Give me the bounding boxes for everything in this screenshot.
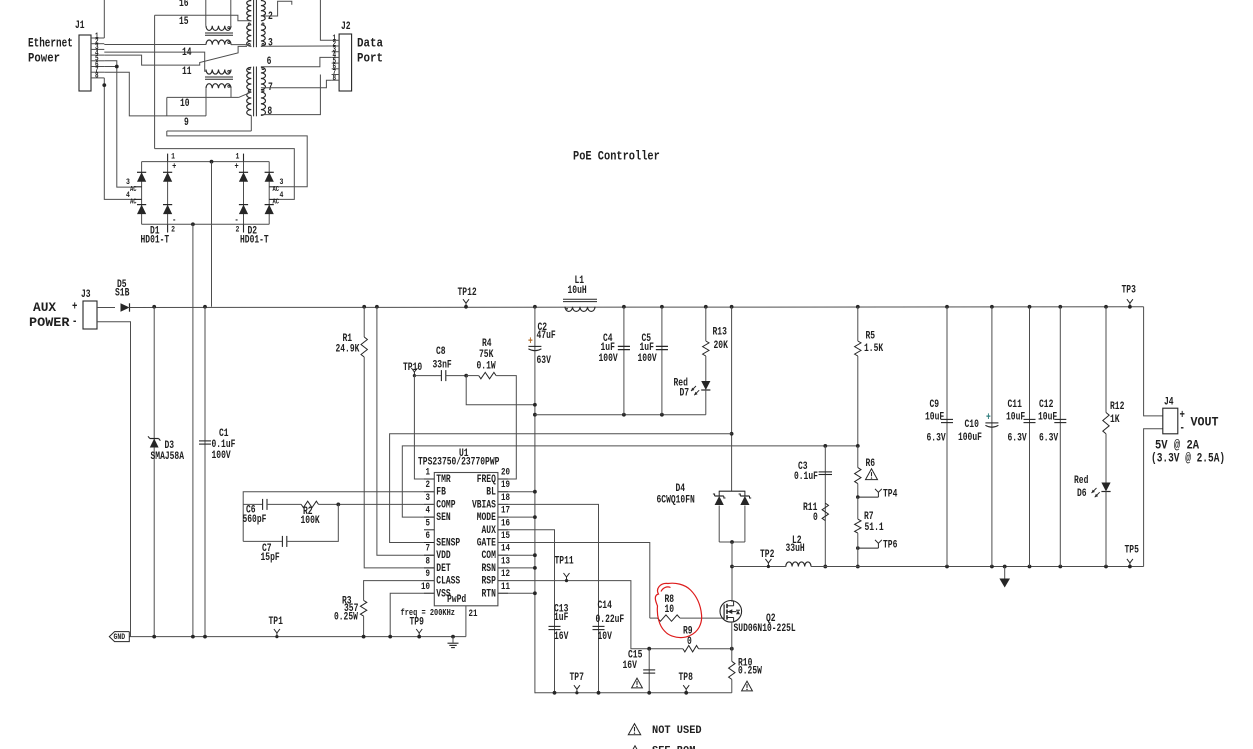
svg-text:TP8: TP8 — [679, 672, 693, 684]
svg-text:R13: R13 — [713, 327, 727, 339]
svg-text:16V: 16V — [554, 631, 569, 643]
svg-text:TP7: TP7 — [570, 672, 584, 684]
svg-text:6.3V: 6.3V — [1039, 433, 1059, 445]
svg-text:10uF: 10uF — [1006, 412, 1025, 424]
svg-text:3: 3 — [280, 177, 284, 187]
svg-text:8: 8 — [333, 74, 337, 83]
svg-text:16: 16 — [179, 0, 189, 10]
svg-text:13: 13 — [501, 556, 510, 567]
svg-text:TP1: TP1 — [269, 616, 283, 628]
svg-text:TP6: TP6 — [883, 540, 897, 552]
svg-text:(3.3V @ 2.5A): (3.3V @ 2.5A) — [1151, 450, 1225, 465]
svg-text:+: + — [235, 161, 240, 172]
svg-text:7: 7 — [426, 544, 431, 555]
svg-text:RTN: RTN — [482, 588, 496, 600]
svg-text:14: 14 — [501, 544, 510, 555]
svg-text:18: 18 — [501, 493, 510, 504]
svg-text:100V: 100V — [638, 353, 658, 365]
svg-text:15: 15 — [501, 531, 510, 542]
svg-text:AC: AC — [130, 186, 137, 194]
svg-text:POWER: POWER — [29, 315, 70, 330]
svg-text:21: 21 — [469, 609, 478, 620]
svg-text:R5: R5 — [866, 331, 876, 343]
svg-text:BL: BL — [486, 487, 496, 499]
svg-text:Red: Red — [1074, 475, 1088, 487]
svg-text:GND: GND — [114, 632, 126, 642]
svg-text:SUD06N10-225L: SUD06N10-225L — [734, 623, 796, 635]
svg-text:COM: COM — [482, 550, 496, 562]
svg-text:TP11: TP11 — [555, 556, 574, 568]
svg-text:HD01-T: HD01-T — [240, 235, 269, 247]
svg-text:TMR: TMR — [436, 474, 451, 486]
svg-text:6: 6 — [426, 531, 431, 542]
svg-text:TP12: TP12 — [458, 287, 477, 299]
svg-text:S1B: S1B — [115, 288, 130, 300]
svg-text:10uF: 10uF — [1038, 412, 1057, 424]
svg-text:20K: 20K — [714, 340, 729, 352]
svg-text:C12: C12 — [1039, 399, 1053, 411]
svg-text:C11: C11 — [1008, 399, 1022, 411]
svg-text:VDD: VDD — [436, 550, 450, 562]
svg-text:AC: AC — [130, 199, 137, 207]
svg-text:Port: Port — [357, 52, 383, 66]
svg-text:6: 6 — [267, 56, 272, 68]
svg-text:-: - — [72, 314, 77, 328]
svg-text:6.3V: 6.3V — [927, 433, 947, 445]
svg-text:RSP: RSP — [482, 576, 496, 588]
svg-text:RSN: RSN — [482, 563, 496, 575]
svg-text:-: - — [1180, 421, 1185, 435]
svg-text:Data: Data — [357, 37, 383, 51]
svg-text:J3: J3 — [81, 289, 91, 301]
svg-text:6CWQ10FN: 6CWQ10FN — [657, 495, 695, 507]
svg-text:10V: 10V — [598, 631, 613, 643]
svg-text:75K: 75K — [479, 349, 494, 361]
svg-text:16V: 16V — [623, 660, 638, 672]
svg-text:1.5K: 1.5K — [864, 343, 884, 355]
svg-text:TP5: TP5 — [1125, 545, 1139, 557]
svg-text:10: 10 — [180, 98, 190, 110]
svg-text:Ethernet: Ethernet — [28, 37, 73, 51]
svg-text:C10: C10 — [965, 419, 979, 431]
svg-text:14: 14 — [182, 47, 192, 59]
svg-text:3: 3 — [268, 38, 273, 50]
svg-text:560pF: 560pF — [243, 514, 267, 526]
svg-text:C9: C9 — [930, 399, 940, 411]
svg-text:COMP: COMP — [436, 499, 455, 511]
svg-text:C14: C14 — [598, 600, 613, 612]
svg-text:11: 11 — [501, 582, 510, 593]
svg-text:4: 4 — [280, 190, 284, 200]
svg-text:33uH: 33uH — [786, 543, 805, 555]
svg-text:2: 2 — [268, 11, 273, 23]
svg-text:SEN: SEN — [436, 512, 450, 524]
svg-text:9: 9 — [426, 569, 431, 580]
svg-text:TP9: TP9 — [410, 617, 424, 629]
svg-text:PwPd: PwPd — [447, 594, 466, 606]
svg-text:10uF: 10uF — [925, 412, 944, 424]
svg-text:DET: DET — [436, 563, 451, 575]
svg-text:1uF: 1uF — [554, 612, 568, 624]
svg-text:D4: D4 — [676, 483, 686, 495]
svg-text:16: 16 — [501, 518, 510, 529]
svg-text:4: 4 — [426, 506, 431, 517]
svg-text:TP3: TP3 — [1122, 285, 1136, 297]
svg-text:TP2: TP2 — [760, 549, 774, 561]
svg-text:2: 2 — [236, 224, 240, 234]
svg-text:11: 11 — [182, 66, 192, 78]
svg-text:J4: J4 — [1164, 397, 1174, 409]
svg-text:100V: 100V — [599, 353, 619, 365]
svg-text:D6: D6 — [1077, 488, 1087, 500]
svg-text:C8: C8 — [436, 346, 446, 358]
svg-text:12: 12 — [501, 569, 510, 580]
svg-text:24.9K: 24.9K — [336, 344, 360, 356]
svg-text:AUX: AUX — [482, 525, 497, 537]
svg-text:AUX: AUX — [33, 300, 56, 315]
svg-text:+: + — [986, 412, 991, 424]
svg-text:33nF: 33nF — [433, 360, 452, 372]
svg-text:CLASS: CLASS — [436, 576, 460, 588]
svg-text:20: 20 — [501, 468, 510, 479]
svg-text:0.1W: 0.1W — [477, 361, 497, 373]
svg-text:8: 8 — [95, 72, 99, 81]
svg-text:10: 10 — [665, 604, 675, 616]
svg-text:PoE Controller: PoE Controller — [573, 148, 660, 163]
svg-text:15pF: 15pF — [261, 552, 280, 564]
svg-text:AC: AC — [273, 186, 280, 194]
svg-text:8: 8 — [267, 106, 272, 118]
svg-text:0: 0 — [687, 636, 692, 648]
svg-text:SENSP: SENSP — [436, 538, 460, 550]
svg-text:0.1uF: 0.1uF — [794, 471, 818, 483]
svg-text:TP10: TP10 — [403, 362, 422, 374]
svg-text:1K: 1K — [1110, 414, 1120, 426]
svg-text:R12: R12 — [1110, 401, 1124, 413]
svg-text:+: + — [1180, 408, 1185, 422]
svg-text:19: 19 — [501, 480, 510, 491]
svg-text:GATE: GATE — [477, 538, 496, 550]
svg-text:6.3V: 6.3V — [1008, 433, 1028, 445]
svg-text:0.25W: 0.25W — [334, 612, 358, 624]
svg-text:NOT USED: NOT USED — [652, 725, 702, 737]
svg-text:51.1: 51.1 — [865, 522, 884, 534]
svg-text:17: 17 — [501, 506, 510, 517]
svg-text:10uH: 10uH — [568, 285, 587, 297]
svg-text:AC: AC — [273, 199, 280, 207]
svg-text:100uF: 100uF — [958, 432, 982, 444]
svg-text:2: 2 — [426, 480, 431, 491]
svg-text:10: 10 — [421, 582, 430, 593]
svg-text:0.22uF: 0.22uF — [596, 614, 625, 626]
svg-text:15: 15 — [179, 16, 189, 28]
svg-text:D7: D7 — [680, 388, 690, 400]
svg-text:+: + — [72, 299, 77, 313]
svg-text:Power: Power — [28, 52, 60, 66]
svg-text:8: 8 — [426, 556, 431, 567]
svg-text:3: 3 — [426, 493, 431, 504]
svg-text:VBIAS: VBIAS — [472, 499, 496, 511]
svg-text:R6: R6 — [866, 458, 876, 470]
svg-text:SMAJ58A: SMAJ58A — [151, 451, 185, 463]
svg-text:J1: J1 — [75, 20, 85, 32]
svg-text:FB: FB — [436, 487, 446, 499]
svg-text:0.25W: 0.25W — [738, 666, 762, 678]
svg-text:+: + — [172, 161, 177, 172]
svg-text:9: 9 — [184, 117, 189, 129]
svg-text:+: + — [528, 336, 533, 348]
svg-text:2: 2 — [171, 224, 175, 234]
svg-text:VOUT: VOUT — [1191, 414, 1219, 429]
svg-text:J2: J2 — [341, 21, 351, 33]
svg-text:100V: 100V — [212, 450, 232, 462]
svg-text:1: 1 — [426, 468, 431, 479]
svg-text:0: 0 — [813, 512, 818, 524]
svg-text:63V: 63V — [537, 355, 552, 367]
svg-text:FREQ: FREQ — [477, 474, 497, 486]
svg-text:100K: 100K — [301, 515, 321, 527]
svg-text:HD01-T: HD01-T — [141, 235, 170, 247]
svg-text:TPS23750/23770PWP: TPS23750/23770PWP — [418, 457, 499, 469]
svg-text:5: 5 — [426, 518, 431, 529]
svg-text:47uF: 47uF — [537, 330, 556, 342]
svg-text:TP4: TP4 — [883, 489, 898, 501]
svg-text:MODE: MODE — [477, 512, 496, 524]
